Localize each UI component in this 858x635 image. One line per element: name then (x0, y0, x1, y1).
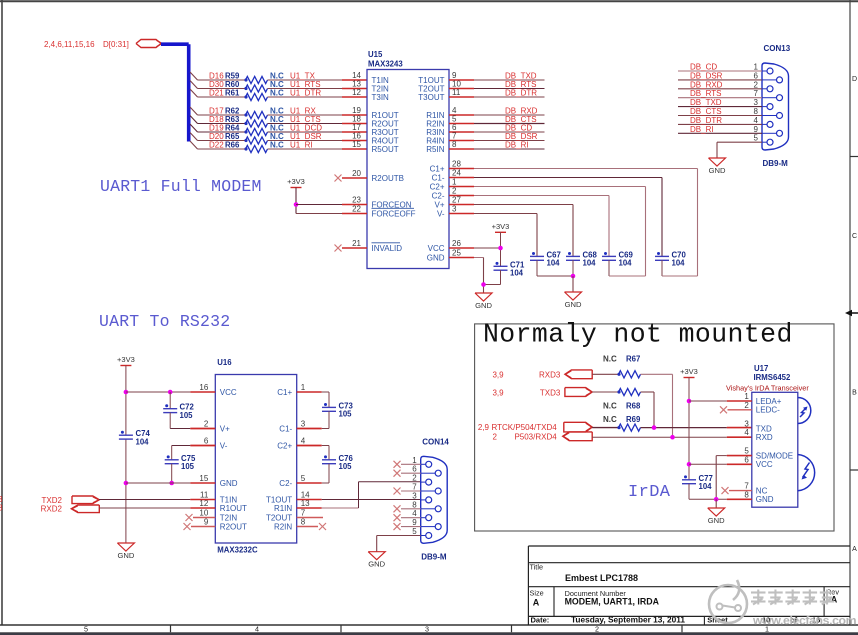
svg-text:2: 2 (412, 474, 417, 483)
svg-text:DB9-M: DB9-M (763, 159, 789, 168)
svg-text:D22: D22 (209, 141, 224, 150)
svg-text:RXD3: RXD3 (539, 371, 561, 380)
svg-text:R2OUT: R2OUT (220, 522, 247, 531)
svg-text:8: 8 (744, 490, 749, 499)
svg-text:IrDA: IrDA (628, 483, 671, 502)
svg-text:A: A (852, 546, 857, 553)
svg-text:9: 9 (412, 518, 417, 527)
svg-text:GND: GND (565, 300, 582, 309)
svg-text:11: 11 (452, 88, 461, 97)
svg-text:+3V3: +3V3 (117, 355, 135, 364)
svg-text:2,9: 2,9 (478, 423, 490, 432)
svg-text:D21: D21 (209, 89, 224, 98)
svg-text:C: C (852, 233, 857, 240)
svg-text:15: 15 (199, 474, 208, 483)
svg-text:3,9: 3,9 (492, 389, 504, 398)
svg-text:GND: GND (427, 253, 445, 262)
svg-text:VCC: VCC (220, 388, 237, 397)
svg-text:1: 1 (301, 383, 306, 392)
svg-text:6: 6 (412, 465, 417, 474)
svg-text:C1+: C1+ (430, 164, 445, 173)
svg-text:R69: R69 (626, 415, 641, 424)
svg-text:DB_CD: DB_CD (690, 63, 717, 72)
svg-text:RXD2: RXD2 (41, 505, 63, 514)
svg-text:U15: U15 (368, 50, 383, 59)
svg-text:26: 26 (452, 239, 461, 248)
svg-text:T2OUT: T2OUT (266, 513, 292, 522)
svg-text:9: 9 (754, 125, 759, 134)
svg-text:104: 104 (699, 482, 713, 491)
svg-text:2,4,6,11,15,16: 2,4,6,11,15,16 (44, 40, 95, 49)
svg-text:2: 2 (744, 401, 749, 410)
svg-text:2: 2 (493, 433, 498, 442)
svg-text:3: 3 (744, 420, 749, 429)
svg-text:8: 8 (412, 500, 417, 509)
svg-text:104: 104 (547, 259, 561, 268)
svg-text:www.elecfans.com: www.elecfans.com (752, 614, 857, 628)
svg-text:20: 20 (352, 169, 361, 178)
svg-text:U16: U16 (217, 358, 232, 367)
svg-text:13: 13 (301, 499, 310, 508)
svg-text:23: 23 (352, 196, 361, 205)
svg-text:4: 4 (301, 437, 306, 446)
svg-text:Tuesday, September 13, 2011: Tuesday, September 13, 2011 (571, 614, 685, 624)
svg-text:Date:: Date: (531, 615, 550, 624)
svg-text:N.C: N.C (603, 355, 617, 364)
svg-text:A: A (533, 597, 540, 607)
svg-text:B: B (852, 390, 857, 397)
svg-text:GND: GND (709, 166, 726, 175)
svg-text:TXD: TXD (756, 424, 772, 433)
svg-text:U1_DTR: U1_DTR (290, 89, 321, 98)
svg-text:8: 8 (452, 140, 457, 149)
svg-text:1: 1 (744, 392, 749, 401)
svg-text:7: 7 (412, 483, 417, 492)
svg-text:6: 6 (754, 71, 759, 80)
svg-text:R5IN: R5IN (426, 145, 444, 154)
svg-text:21: 21 (352, 239, 361, 248)
svg-text:104: 104 (619, 259, 633, 268)
svg-text:R2OUTB: R2OUTB (372, 174, 404, 183)
svg-text:4: 4 (255, 624, 259, 633)
svg-text:22: 22 (352, 205, 361, 214)
svg-text:27: 27 (452, 196, 461, 205)
svg-text:FORCEOFF: FORCEOFF (372, 209, 416, 218)
svg-text:105: 105 (339, 462, 353, 471)
svg-text:NC: NC (756, 486, 768, 495)
svg-text:105: 105 (180, 411, 194, 420)
svg-text:6: 6 (744, 455, 749, 464)
svg-text:3,9: 3,9 (492, 371, 504, 380)
svg-text:104: 104 (583, 259, 597, 268)
svg-text:UART1 Full MODEM: UART1 Full MODEM (100, 177, 262, 196)
svg-text:MAX3232C: MAX3232C (217, 546, 258, 555)
svg-text:Embest LPC1788: Embest LPC1788 (565, 573, 638, 583)
svg-text:D[0:31]: D[0:31] (103, 40, 129, 49)
svg-text:2: 2 (595, 624, 599, 633)
svg-text:DB_CTS: DB_CTS (690, 107, 722, 116)
svg-text:C1+: C1+ (277, 388, 292, 397)
svg-text:INVALID: INVALID (372, 244, 403, 253)
svg-text:GND: GND (708, 516, 725, 525)
svg-text:MODEM, UART1, IRDA: MODEM, UART1, IRDA (565, 597, 660, 607)
svg-text:N.C: N.C (270, 89, 284, 98)
svg-text:R2IN: R2IN (274, 522, 292, 531)
svg-text:2: 2 (204, 420, 209, 429)
svg-text:DB_DTR: DB_DTR (690, 116, 722, 125)
svg-text:2: 2 (452, 187, 457, 196)
svg-text:9: 9 (204, 518, 209, 527)
svg-text:GND: GND (220, 479, 238, 488)
svg-text:T3OUT: T3OUT (418, 93, 444, 102)
svg-text:DB_RI: DB_RI (505, 141, 529, 150)
svg-text:25: 25 (452, 249, 461, 258)
svg-text:GND: GND (368, 560, 385, 569)
svg-text:1: 1 (452, 178, 457, 187)
svg-text:C2+: C2+ (430, 182, 445, 191)
svg-text:VCC: VCC (428, 244, 445, 253)
svg-text:12: 12 (199, 499, 208, 508)
svg-text:1: 1 (754, 63, 759, 72)
svg-text:+3V3: +3V3 (680, 367, 698, 376)
svg-text:7: 7 (744, 482, 749, 491)
svg-text:104: 104 (672, 259, 686, 268)
svg-text:4: 4 (412, 509, 417, 518)
svg-text:RTCK/P504/TXD4: RTCK/P504/TXD4 (491, 423, 557, 432)
svg-text:R67: R67 (626, 355, 640, 364)
svg-text:P503/RXD4: P503/RXD4 (514, 433, 557, 442)
svg-text:IRMS6452: IRMS6452 (754, 373, 792, 382)
svg-text:DB_RI: DB_RI (690, 125, 714, 134)
svg-text:V-: V- (437, 209, 445, 218)
svg-text:N.C: N.C (270, 141, 284, 150)
svg-text:DB_TXD: DB_TXD (690, 98, 722, 107)
svg-text:105: 105 (339, 410, 353, 419)
svg-text:6: 6 (204, 437, 209, 446)
svg-text:V+: V+ (434, 200, 444, 209)
svg-text:TXD3: TXD3 (540, 389, 561, 398)
svg-text:DB_RXD: DB_RXD (690, 80, 723, 89)
svg-text:3: 3 (301, 420, 306, 429)
svg-text:C1-: C1- (432, 173, 445, 182)
svg-text:24: 24 (452, 169, 461, 178)
svg-text:10: 10 (199, 509, 208, 518)
svg-text:5: 5 (301, 474, 306, 483)
svg-text:CON14: CON14 (422, 437, 449, 446)
svg-text:3: 3 (425, 624, 429, 633)
svg-text:2: 2 (754, 80, 759, 89)
svg-text:T3IN: T3IN (372, 93, 390, 102)
svg-text:104: 104 (510, 269, 524, 278)
svg-text:4: 4 (754, 116, 759, 125)
svg-text:1: 1 (412, 456, 417, 465)
svg-text:105: 105 (181, 462, 195, 471)
svg-text:R66: R66 (225, 141, 240, 150)
svg-text:3: 3 (452, 205, 457, 214)
svg-text:3: 3 (412, 491, 417, 500)
svg-text:LEDC-: LEDC- (756, 406, 780, 415)
svg-text:C2-: C2- (279, 479, 292, 488)
svg-text:U1_RI: U1_RI (290, 141, 313, 150)
svg-text:LEDA+: LEDA+ (756, 397, 782, 406)
svg-text:5: 5 (744, 447, 749, 456)
svg-text:GND: GND (475, 301, 492, 310)
svg-text:N.C: N.C (603, 415, 617, 424)
svg-text:RXD: RXD (756, 433, 773, 442)
svg-text:VCC: VCC (756, 460, 773, 469)
svg-text:C2-: C2- (432, 191, 445, 200)
svg-text:28: 28 (452, 160, 461, 169)
svg-text:Vishay's IrDA Transceiver: Vishay's IrDA Transceiver (726, 384, 809, 393)
svg-text:Size: Size (530, 589, 544, 598)
svg-text:8: 8 (754, 107, 759, 116)
svg-text:R61: R61 (225, 89, 240, 98)
svg-text:UART To RS232: UART To RS232 (99, 312, 230, 331)
svg-text:+3V3: +3V3 (287, 177, 305, 186)
svg-text:N.C: N.C (603, 402, 617, 411)
svg-text:5: 5 (412, 527, 417, 536)
svg-text:SD/MODE: SD/MODE (756, 451, 793, 460)
svg-text:GND: GND (117, 551, 134, 560)
svg-text:R1IN: R1IN (274, 504, 292, 513)
svg-text:5: 5 (84, 624, 88, 633)
svg-text:3: 3 (754, 98, 759, 107)
svg-text:Normaly not mounted: Normaly not mounted (483, 320, 793, 350)
svg-text:DB_DTR: DB_DTR (505, 89, 537, 98)
svg-text:15: 15 (352, 140, 361, 149)
svg-text:A: A (831, 594, 838, 604)
svg-text:8: 8 (301, 518, 306, 527)
svg-text:4: 4 (744, 428, 749, 437)
svg-text:5: 5 (754, 134, 759, 143)
svg-text:Title: Title (530, 562, 544, 571)
svg-text:16: 16 (199, 383, 208, 392)
svg-text:7: 7 (301, 509, 306, 518)
svg-text:DB_DSR: DB_DSR (690, 71, 723, 80)
svg-text:DB9-M: DB9-M (421, 552, 447, 561)
svg-text:12: 12 (352, 88, 361, 97)
svg-text:D: D (852, 76, 857, 83)
svg-text:TXD2: TXD2 (42, 496, 63, 505)
svg-text:GND: GND (756, 495, 774, 504)
svg-text:DB_RTS: DB_RTS (690, 89, 721, 98)
svg-text:C1-: C1- (279, 424, 292, 433)
svg-text:T2IN: T2IN (220, 513, 238, 522)
svg-text:R5OUT: R5OUT (372, 145, 399, 154)
svg-text:R68: R68 (626, 402, 641, 411)
svg-text:CON13: CON13 (764, 44, 791, 53)
svg-text:MAX3243: MAX3243 (368, 60, 403, 69)
svg-text:V-: V- (220, 441, 228, 450)
svg-text:104: 104 (136, 437, 150, 446)
svg-text:R1OUT: R1OUT (220, 504, 247, 513)
svg-text:7: 7 (754, 89, 759, 98)
svg-text:C2+: C2+ (277, 441, 292, 450)
svg-text:U17: U17 (754, 364, 768, 373)
svg-text:+3V3: +3V3 (492, 222, 510, 231)
svg-text:V+: V+ (220, 424, 230, 433)
